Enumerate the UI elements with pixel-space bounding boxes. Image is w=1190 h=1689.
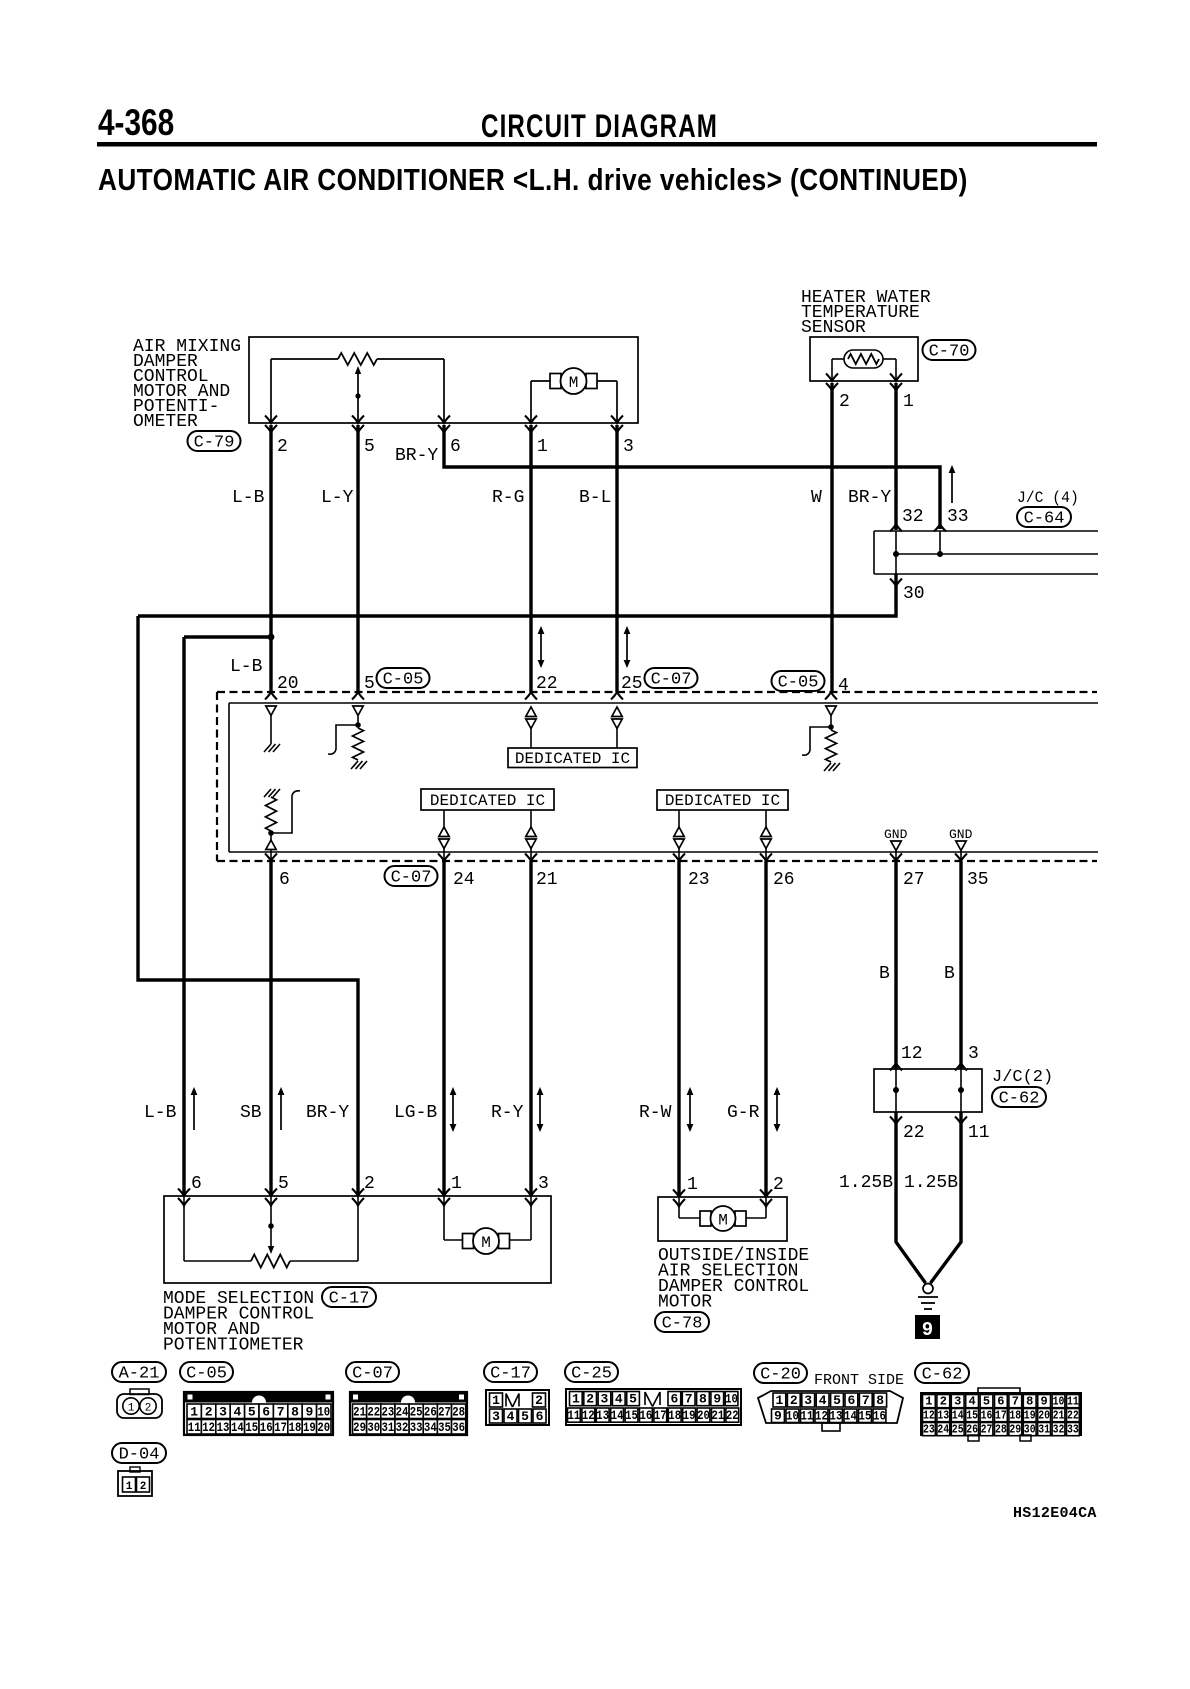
svg-text:L-B: L-B (232, 488, 265, 508)
svg-text:19: 19 (683, 1408, 696, 1423)
svg-text:36: 36 (452, 1420, 465, 1435)
svg-text:4: 4 (819, 1393, 827, 1408)
svg-text:22: 22 (367, 1404, 380, 1419)
svg-text:2: 2 (364, 1174, 375, 1194)
svg-text:12: 12 (202, 1420, 215, 1435)
svg-text:3: 3 (219, 1404, 227, 1419)
svg-text:23: 23 (923, 1424, 935, 1437)
svg-text:G-R: G-R (727, 1103, 760, 1123)
svg-text:2: 2 (140, 1481, 147, 1493)
svg-text:1: 1 (687, 1175, 698, 1195)
svg-text:1: 1 (537, 437, 548, 457)
svg-text:33: 33 (410, 1420, 423, 1435)
svg-text:3: 3 (954, 1395, 961, 1409)
svg-text:17: 17 (654, 1408, 667, 1423)
svg-text:6: 6 (191, 1174, 202, 1194)
svg-text:C-78: C-78 (662, 1315, 703, 1334)
svg-text:1: 1 (903, 392, 914, 412)
svg-text:C-70: C-70 (929, 343, 970, 362)
svg-text:20: 20 (317, 1420, 330, 1435)
svg-text:M: M (718, 1212, 728, 1230)
svg-text:GND: GND (949, 827, 973, 842)
svg-text:4-368: 4-368 (98, 103, 174, 144)
svg-text:6: 6 (997, 1395, 1004, 1409)
svg-text:7: 7 (862, 1393, 870, 1408)
svg-text:33: 33 (1067, 1424, 1079, 1437)
svg-text:C-07: C-07 (352, 1365, 393, 1384)
svg-text:BR-Y: BR-Y (395, 446, 438, 466)
svg-text:L-B: L-B (144, 1103, 177, 1123)
svg-text:11: 11 (801, 1408, 814, 1423)
svg-text:DEDICATED IC: DEDICATED IC (515, 750, 630, 768)
svg-text:C-17: C-17 (329, 1290, 370, 1309)
svg-text:30: 30 (903, 584, 925, 604)
svg-text:11: 11 (188, 1420, 201, 1435)
svg-text:13: 13 (937, 1410, 949, 1423)
svg-text:D-04: D-04 (119, 1446, 160, 1465)
svg-text:28: 28 (452, 1404, 465, 1419)
svg-text:20: 20 (277, 674, 299, 694)
svg-text:24: 24 (453, 870, 475, 890)
svg-text:POTENTIOMETER: POTENTIOMETER (163, 1336, 304, 1356)
svg-text:30: 30 (367, 1420, 380, 1435)
svg-text:15: 15 (859, 1408, 872, 1423)
svg-text:8: 8 (699, 1392, 707, 1407)
svg-text:1: 1 (190, 1404, 198, 1419)
svg-text:19: 19 (303, 1420, 316, 1435)
svg-text:18: 18 (668, 1408, 681, 1423)
svg-text:R-G: R-G (492, 488, 524, 508)
svg-text:3: 3 (968, 1044, 979, 1064)
svg-text:19: 19 (1024, 1410, 1036, 1423)
svg-text:AUTOMATIC AIR CONDITIONER <L.H: AUTOMATIC AIR CONDITIONER <L.H. drive ve… (98, 163, 968, 198)
svg-text:6: 6 (536, 1409, 544, 1424)
svg-text:25: 25 (410, 1404, 423, 1419)
svg-text:2: 2 (205, 1404, 213, 1419)
svg-text:3: 3 (804, 1393, 812, 1408)
svg-text:C-62: C-62 (922, 1366, 963, 1385)
svg-text:2: 2 (790, 1393, 798, 1408)
svg-text:15: 15 (245, 1420, 258, 1435)
svg-text:C-64: C-64 (1024, 510, 1065, 529)
svg-text:11: 11 (568, 1408, 581, 1423)
svg-text:C-79: C-79 (194, 434, 235, 453)
svg-text:7: 7 (685, 1392, 693, 1407)
svg-text:9: 9 (1040, 1395, 1047, 1409)
svg-text:C-05: C-05 (778, 674, 819, 693)
svg-text:4: 4 (233, 1404, 241, 1419)
svg-text:A-21: A-21 (119, 1365, 160, 1384)
svg-text:1: 1 (451, 1174, 462, 1194)
svg-text:2: 2 (535, 1393, 543, 1408)
svg-text:31: 31 (1038, 1424, 1050, 1437)
svg-text:18: 18 (289, 1420, 302, 1435)
svg-text:SENSOR: SENSOR (801, 318, 866, 338)
svg-text:6: 6 (847, 1393, 855, 1408)
svg-text:5: 5 (248, 1404, 256, 1419)
svg-text:16: 16 (873, 1408, 886, 1423)
svg-text:GND: GND (884, 827, 908, 842)
svg-text:5: 5 (278, 1174, 289, 1194)
svg-text:23: 23 (688, 870, 710, 890)
svg-text:9: 9 (305, 1404, 313, 1419)
svg-text:27: 27 (981, 1424, 993, 1437)
svg-text:1.25B: 1.25B (839, 1173, 893, 1193)
svg-text:11: 11 (1067, 1396, 1079, 1409)
svg-text:9: 9 (713, 1392, 721, 1407)
svg-text:13: 13 (596, 1408, 609, 1423)
svg-text:2: 2 (145, 1403, 152, 1415)
svg-text:1: 1 (492, 1393, 500, 1408)
svg-text:C-62: C-62 (999, 1090, 1040, 1109)
svg-text:17: 17 (274, 1420, 287, 1435)
svg-text:9: 9 (774, 1408, 782, 1423)
svg-text:HS12E04CA: HS12E04CA (1013, 1505, 1097, 1522)
svg-text:26: 26 (773, 870, 795, 890)
svg-text:35: 35 (438, 1420, 451, 1435)
svg-text:1.25B: 1.25B (904, 1173, 958, 1193)
svg-text:32: 32 (396, 1420, 409, 1435)
svg-text:C-05: C-05 (383, 671, 424, 690)
svg-text:10: 10 (786, 1408, 799, 1423)
svg-text:11: 11 (968, 1123, 990, 1143)
svg-text:16: 16 (640, 1408, 653, 1423)
svg-text:M: M (569, 374, 579, 392)
svg-text:22: 22 (726, 1408, 739, 1423)
svg-text:35: 35 (967, 870, 989, 890)
svg-text:24: 24 (396, 1404, 409, 1419)
svg-text:18: 18 (1009, 1410, 1021, 1423)
svg-text:1: 1 (572, 1392, 580, 1407)
svg-text:10: 10 (725, 1392, 738, 1407)
svg-text:SB: SB (240, 1103, 262, 1123)
svg-text:27: 27 (438, 1404, 451, 1419)
svg-text:10: 10 (1053, 1396, 1065, 1409)
svg-text:5: 5 (983, 1395, 990, 1409)
svg-text:5: 5 (833, 1393, 841, 1408)
svg-text:8: 8 (291, 1404, 299, 1419)
svg-text:27: 27 (903, 870, 925, 890)
svg-text:2: 2 (773, 1175, 784, 1195)
svg-text:J/C (4): J/C (4) (1017, 488, 1079, 507)
svg-text:6: 6 (450, 437, 461, 457)
svg-text:13: 13 (830, 1408, 843, 1423)
svg-text:25: 25 (621, 674, 643, 694)
svg-text:C-20: C-20 (760, 1366, 801, 1385)
svg-text:7: 7 (277, 1404, 285, 1419)
svg-text:3: 3 (623, 437, 634, 457)
svg-text:1: 1 (126, 1481, 133, 1493)
svg-text:2: 2 (940, 1395, 947, 1409)
svg-text:4: 4 (968, 1395, 975, 1409)
svg-text:31: 31 (381, 1420, 394, 1435)
svg-text:B: B (944, 964, 955, 984)
svg-text:2: 2 (839, 392, 850, 412)
svg-text:8: 8 (1026, 1395, 1033, 1409)
svg-text:FRONT SIDE: FRONT SIDE (814, 1372, 904, 1389)
svg-text:W: W (811, 488, 822, 508)
svg-text:12: 12 (923, 1410, 935, 1423)
svg-text:7: 7 (1012, 1395, 1019, 1409)
svg-text:10: 10 (317, 1404, 330, 1419)
svg-text:C-07: C-07 (651, 671, 692, 690)
svg-text:14: 14 (952, 1410, 964, 1423)
svg-text:14: 14 (844, 1408, 857, 1423)
svg-text:BR-Y: BR-Y (306, 1103, 349, 1123)
svg-text:15: 15 (625, 1408, 638, 1423)
svg-text:21: 21 (712, 1408, 725, 1423)
svg-text:5: 5 (364, 674, 375, 694)
svg-text:26: 26 (424, 1404, 437, 1419)
svg-text:14: 14 (611, 1408, 624, 1423)
svg-text:12: 12 (901, 1044, 923, 1064)
svg-text:8: 8 (876, 1393, 884, 1408)
svg-text:20: 20 (697, 1408, 710, 1423)
svg-text:25: 25 (952, 1424, 964, 1437)
svg-text:6: 6 (279, 870, 290, 890)
svg-text:5: 5 (629, 1392, 637, 1407)
svg-text:MOTOR: MOTOR (658, 1293, 712, 1313)
svg-text:J/C(2): J/C(2) (992, 1068, 1053, 1087)
svg-text:R-Y: R-Y (491, 1103, 524, 1123)
svg-text:OMETER: OMETER (133, 412, 198, 432)
svg-text:5: 5 (364, 437, 375, 457)
svg-text:BR-Y: BR-Y (848, 488, 891, 508)
svg-text:17: 17 (995, 1410, 1007, 1423)
svg-text:4: 4 (615, 1392, 623, 1407)
svg-text:14: 14 (231, 1420, 244, 1435)
svg-text:M: M (481, 1234, 491, 1252)
svg-text:B-L: B-L (579, 488, 611, 508)
svg-text:29: 29 (353, 1420, 366, 1435)
svg-text:DEDICATED IC: DEDICATED IC (430, 792, 545, 810)
svg-text:15: 15 (966, 1410, 978, 1423)
svg-text:3: 3 (538, 1174, 549, 1194)
svg-text:3: 3 (492, 1409, 500, 1424)
svg-text:34: 34 (424, 1420, 437, 1435)
svg-text:C-07: C-07 (391, 869, 432, 888)
svg-text:9: 9 (922, 1319, 933, 1341)
svg-text:33: 33 (947, 507, 969, 527)
svg-text:5: 5 (521, 1409, 529, 1424)
svg-text:2: 2 (586, 1392, 594, 1407)
svg-text:L-Y: L-Y (321, 488, 354, 508)
svg-text:6: 6 (670, 1392, 678, 1407)
svg-text:C-17: C-17 (490, 1365, 531, 1384)
svg-text:32: 32 (902, 507, 924, 527)
svg-text:22: 22 (903, 1123, 925, 1143)
svg-text:B: B (879, 964, 890, 984)
svg-text:21: 21 (353, 1404, 366, 1419)
svg-text:28: 28 (995, 1424, 1007, 1437)
svg-text:CIRCUIT DIAGRAM: CIRCUIT DIAGRAM (481, 109, 718, 145)
svg-text:R-W: R-W (639, 1103, 672, 1123)
svg-text:21: 21 (1053, 1410, 1065, 1423)
svg-text:32: 32 (1053, 1424, 1065, 1437)
svg-text:3: 3 (601, 1392, 609, 1407)
svg-text:LG-B: LG-B (394, 1103, 437, 1123)
svg-text:6: 6 (262, 1404, 270, 1419)
svg-text:22: 22 (1067, 1410, 1079, 1423)
svg-text:12: 12 (815, 1408, 828, 1423)
svg-text:DEDICATED IC: DEDICATED IC (665, 792, 780, 810)
svg-text:16: 16 (260, 1420, 273, 1435)
svg-text:13: 13 (217, 1420, 230, 1435)
svg-text:C-25: C-25 (571, 1365, 612, 1384)
svg-text:23: 23 (381, 1404, 394, 1419)
svg-text:22: 22 (536, 674, 558, 694)
svg-text:1: 1 (775, 1393, 783, 1408)
svg-text:1: 1 (925, 1395, 932, 1409)
svg-text:1: 1 (128, 1403, 135, 1415)
svg-text:2: 2 (277, 437, 288, 457)
svg-text:24: 24 (937, 1424, 949, 1437)
svg-text:21: 21 (536, 870, 558, 890)
svg-text:4: 4 (507, 1409, 515, 1424)
svg-text:12: 12 (582, 1408, 595, 1423)
svg-text:16: 16 (981, 1410, 993, 1423)
svg-text:20: 20 (1038, 1410, 1050, 1423)
svg-text:C-05: C-05 (186, 1365, 227, 1384)
svg-text:L-B: L-B (230, 657, 263, 677)
